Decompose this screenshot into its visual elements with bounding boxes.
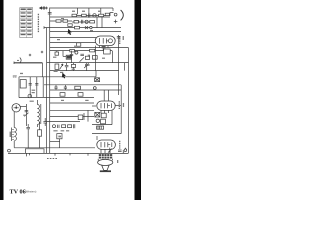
osc coil x=37 bbox=[37, 100, 40, 127]
svg-text:88: 88 bbox=[13, 75, 17, 79]
cap on right rail bbox=[117, 37, 121, 38]
left coil with core (ferrite antenna) bbox=[12, 112, 17, 148]
resistor with x at 95-100,77-82 bbox=[95, 78, 100, 82]
resistor inline on y=50.6 bbox=[70, 49, 75, 52]
IF transformer box at x=105 y=50 bbox=[104, 49, 113, 63]
cap x=28 y=128 bbox=[26, 124, 30, 148]
IF line y=101.6 bbox=[50, 102, 94, 104]
component cluster y=55-60 bbox=[55, 51, 97, 60]
pot with arrow at x=57 y=64 bbox=[55, 64, 63, 69]
right rail x=118.6 bbox=[118, 35, 120, 95]
boxes under V3 bbox=[92, 110, 112, 125]
bus y=116.6 bbox=[50, 116, 94, 118]
tube V4 (stadium) bbox=[97, 136, 116, 153]
right rail x=121.2 bbox=[120, 85, 122, 134]
volume pot box left bbox=[19, 77, 43, 98]
svg-text:(Western): (Western) bbox=[25, 190, 36, 194]
diagonal pointer arrow 1 bbox=[68, 29, 72, 35]
tube V4 label bbox=[119, 141, 121, 149]
tube V3 label bbox=[118, 101, 120, 109]
variable arrow at x=81 y=59 bbox=[80, 57, 84, 61]
resistor hanging below bus at x=78,y=44 bbox=[77, 43, 81, 46]
wire row y=22 bbox=[72, 21, 95, 23]
wire row y=15.5 bbox=[72, 15, 110, 17]
drops from top bus bbox=[77, 8, 79, 14]
top bus y=8 bbox=[50, 7, 113, 9]
bus y=42.6 bbox=[50, 42, 96, 44]
bus y=90 bbox=[50, 89, 121, 91]
dial pointer / antenna symbol top-left bbox=[40, 7, 49, 10]
cap ticks on rail at y=13 bbox=[48, 13, 52, 14]
resistor x=39.5 y=132 bbox=[38, 122, 42, 148]
"88" label bbox=[13, 75, 17, 79]
rotated caption right of table bbox=[37, 14, 39, 33]
bus y=31.6 bbox=[50, 31, 121, 33]
bottom bus y=147.8 bbox=[14, 147, 95, 149]
tube V1 cathode drop bbox=[95, 46, 97, 71]
svg-text:TV 06: TV 06 bbox=[10, 189, 26, 196]
wire y=140? bbox=[50, 141, 60, 143]
line y=133.6 bbox=[92, 133, 121, 135]
left tube circle (magic eye) bbox=[12, 104, 26, 112]
cap below bus at 85 bbox=[85, 63, 88, 71]
diagonal pointer arrow 2 bbox=[62, 73, 66, 79]
cap x=119.8 y=150 bbox=[118, 150, 122, 151]
alignment table top-left bbox=[20, 8, 33, 38]
bus y=37.6 bbox=[50, 37, 96, 39]
bus y=84.8 bbox=[44, 84, 121, 86]
series resistors on wire y=21 bbox=[50, 20, 72, 22]
bus y=17 bbox=[50, 16, 110, 18]
tube V1 (stadium) bbox=[95, 36, 115, 51]
table cell text (illegible scan) bbox=[21, 8, 32, 35]
trimmer circle on y=27.6 bbox=[90, 26, 92, 28]
tube V1 label (rotated) bbox=[119, 36, 121, 44]
tube V3 (stadium) bbox=[97, 101, 121, 113]
chassis frame bottom-left bbox=[25, 149, 44, 154]
bottom tick marks bbox=[27, 153, 89, 156]
resistor below at x=70 bbox=[68, 24, 72, 27]
component row y=14-17 (RC chain) bbox=[72, 13, 109, 17]
bus y=27.6 bbox=[44, 27, 121, 29]
bus y=121.6 bbox=[47, 121, 80, 123]
variable cap column x=26.4 bbox=[24, 104, 28, 126]
right rail x=128.5 bbox=[128, 48, 130, 153]
long horizontal bar (dial) bbox=[14, 62, 42, 64]
resistor 85.4,56 bbox=[85, 56, 89, 59]
coupling cluster y=126-129 bbox=[97, 126, 104, 129]
bus y=50.6 bbox=[50, 50, 112, 52]
bottom bus y=153.4 bbox=[8, 152, 129, 154]
ground terminal circle bottom-left bbox=[8, 149, 11, 152]
resistor inline on y=50.6 b bbox=[90, 49, 95, 52]
bus y=47.6 bbox=[50, 47, 129, 49]
component row y=20-24 bbox=[74, 17, 102, 28]
small circle right x=95 y=88 bbox=[93, 87, 96, 90]
cap pair at x=66 y=64 bbox=[65, 63, 69, 71]
terminal right bbox=[124, 148, 127, 152]
line y=106 left bbox=[92, 105, 96, 107]
bus y=70.6 bbox=[50, 70, 119, 72]
loudspeaker bbox=[98, 159, 113, 172]
var resistor right of V4 bbox=[108, 148, 112, 154]
headphone jack top right bbox=[110, 8, 123, 23]
misc right-side stubs bbox=[96, 63, 124, 77]
page left black margin bbox=[0, 0, 4, 200]
small parts row y=123-130 bbox=[53, 110, 89, 128]
bus y=76.8 bbox=[19, 76, 96, 78]
tiny value labels (illegible) bbox=[10, 11, 125, 163]
main vertical rail B bbox=[46, 28, 48, 153]
V3 top feed pins bbox=[103, 90, 105, 101]
dashed link line bbox=[47, 157, 58, 159]
var arrow at 84-88 bbox=[84, 63, 89, 68]
boxes below: bbox=[19, 93, 94, 98]
cap at 71.5,55 bbox=[70, 51, 73, 63]
circuit row between 85-90: caps bbox=[54, 85, 80, 90]
page right black margin bbox=[135, 0, 142, 200]
left: tuning coil bracket bbox=[20, 58, 21, 64]
cap X mark on y=27.6 bbox=[85, 26, 88, 29]
resistor x=73 y=64 bbox=[71, 63, 75, 71]
box x=59 y=134 bbox=[57, 134, 62, 139]
junction plus marks bbox=[29, 51, 43, 56]
trimmer cap x=45 y=122 bbox=[43, 118, 47, 126]
output transformer bbox=[99, 154, 112, 158]
main vertical rail A bbox=[49, 8, 51, 154]
resistor inline on y=27.6 bbox=[75, 26, 80, 29]
bus y=62.6 bbox=[47, 62, 129, 64]
